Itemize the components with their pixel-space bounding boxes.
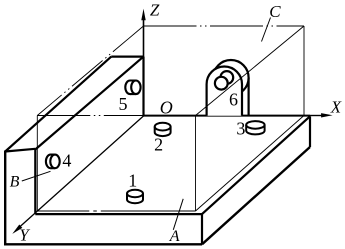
base plate back-right vertical edge: [309, 116, 311, 147]
lug front face (white fill): [207, 66, 242, 115]
leader line for A: [173, 199, 183, 230]
vertical plate front-left vertical edge: [4, 151, 6, 246]
base top back edge along X axis: [144, 115, 311, 117]
box C front-right vertical edge: [195, 116, 197, 212]
boss 1: [127, 190, 143, 203]
base plate bottom-right edge: [202, 147, 310, 244]
box C bottom-right edge: [196, 116, 305, 212]
svg-text:A: A: [169, 228, 180, 245]
svg-text:C: C: [269, 2, 281, 21]
svg-text:X: X: [330, 98, 342, 117]
box C right back vertical edge: [303, 26, 305, 116]
hole rim back circle: [220, 71, 233, 84]
Z axis arrowhead: [141, 9, 145, 20]
base plate top-right edge: [202, 116, 310, 214]
base plate front face top edge: [35, 213, 202, 215]
svg-text:4: 4: [62, 150, 71, 170]
X axis arrowhead: [321, 113, 333, 117]
box C front-top edge / centre line left of Z axis (dash-dot): [37, 115, 143, 117]
svg-text:5: 5: [119, 94, 128, 114]
svg-text:Z: Z: [150, 0, 160, 19]
base plate front face bottom edge: [5, 243, 202, 245]
Z axis: [143, 20, 145, 116]
svg-text:3: 3: [236, 118, 245, 138]
box C top-left edge: [37, 26, 143, 116]
svg-text:6: 6: [229, 89, 238, 109]
vertical plate front face top edge: [5, 149, 35, 152]
base plate front-right vertical edge (front-left edge is merged with the vertical plate front-left edge): [201, 214, 203, 244]
svg-text:B: B: [10, 174, 20, 191]
Y axis arrowhead: [12, 225, 22, 234]
pin 6 front circle: [215, 77, 228, 90]
svg-text:O: O: [160, 98, 173, 118]
boss 3: [246, 121, 264, 134]
boss 5: [125, 81, 140, 95]
svg-text:1: 1: [128, 171, 137, 191]
svg-text:2: 2: [154, 135, 163, 155]
X axis tail: [310, 115, 325, 117]
vertical plate top-right edge: [35, 57, 143, 150]
vertical plate top-left edge: [5, 57, 111, 152]
lug back-right vertical edge: [248, 78, 250, 116]
svg-text:Y: Y: [19, 225, 30, 244]
vertical plate back-right vertical edge: [142, 57, 144, 116]
box C front-bottom edge: [37, 210, 195, 212]
Y axis: [19, 116, 144, 228]
boss 4: [46, 155, 60, 169]
box C top back edge (dash-dot): [144, 25, 305, 27]
lug back arch: [213, 60, 248, 95]
boss 2: [155, 123, 171, 136]
leader line for B: [22, 171, 51, 181]
leader line for C: [262, 18, 271, 42]
vertical plate front-right vertical edge: [34, 149, 36, 214]
box C top-right edge (diagonal through lug): [196, 26, 305, 116]
vertical plate top face back edge: [111, 55, 143, 57]
box C front-left vertical edge: [36, 116, 38, 212]
